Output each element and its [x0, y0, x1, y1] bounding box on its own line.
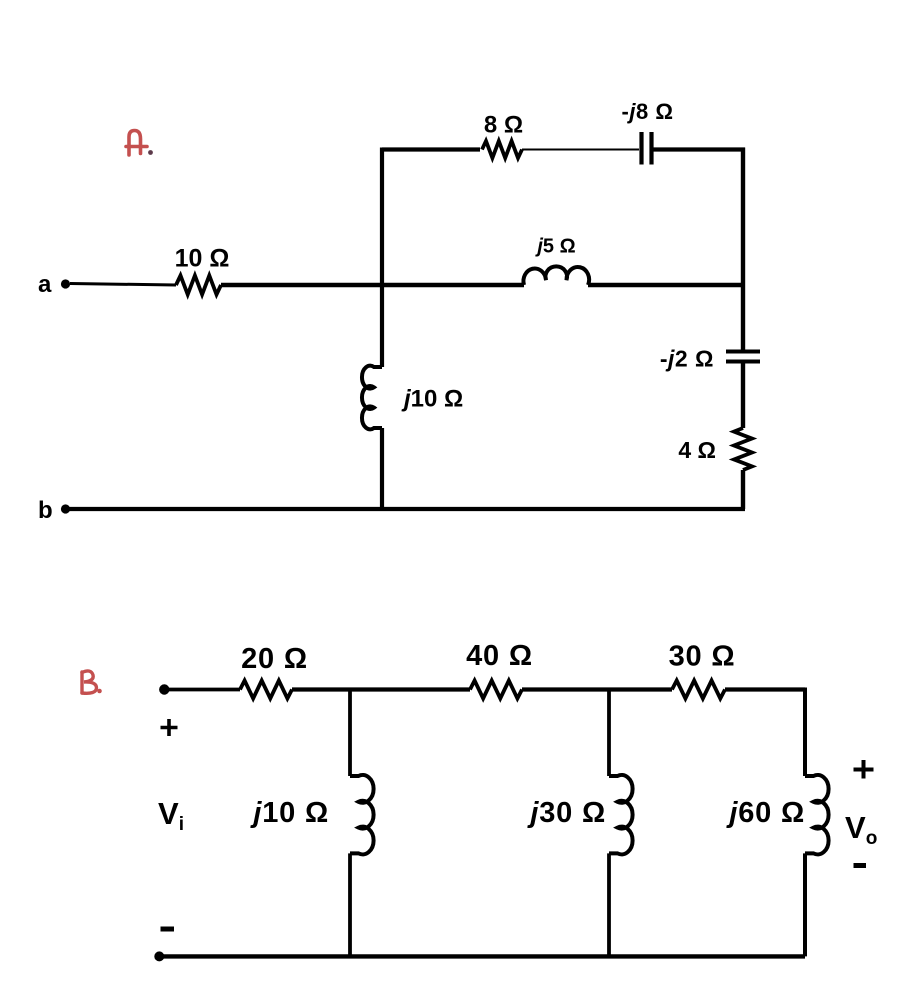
- resistor 20ohm: [240, 681, 292, 699]
- right vertical upper: [741, 148, 745, 350]
- svg-text:10 Ω: 10 Ω: [175, 245, 230, 273]
- top-left node dot: [159, 684, 169, 694]
- wire R4 to bottom rail: [741, 470, 745, 509]
- resistor 4ohm vertical: [734, 428, 752, 470]
- svg-text:4 Ω: 4 Ω: [678, 437, 716, 463]
- svg-text:j10 Ω: j10 Ω: [401, 386, 463, 413]
- wire cap to R4: [741, 364, 745, 429]
- inductor j10 (circuit A, left-facing): [362, 366, 382, 430]
- rail 40ohm to 30ohm: [522, 687, 672, 691]
- capacitor -j2: [726, 352, 760, 362]
- minus sign left: [161, 927, 175, 932]
- inductor j60: [805, 775, 829, 854]
- branch j10 (B) upper wire: [348, 688, 352, 777]
- rail 20ohm to 40ohm: [292, 687, 470, 691]
- svg-text:b: b: [38, 497, 53, 524]
- svg-text:20 Ω: 20 Ω: [241, 643, 308, 675]
- branch j10 lower wire: [348, 853, 352, 956]
- top rail left segment: [382, 147, 480, 151]
- svg-text:j60 Ω: j60 Ω: [725, 797, 805, 829]
- resistor 10ohm: [176, 276, 221, 295]
- branch j30 lower wire: [607, 853, 611, 956]
- bottom rail B: [159, 954, 805, 958]
- svg-text:30 Ω: 30 Ω: [669, 641, 736, 673]
- label A. (red handwritten): [126, 131, 147, 156]
- wire a to R 10ohm: [70, 284, 176, 286]
- right branch lower wire: [803, 853, 807, 956]
- vertical wire below coil to bottom rail: [380, 428, 384, 509]
- wire R10 to junction, middle rail left part: [221, 283, 524, 287]
- bottom rail A: [66, 507, 745, 511]
- inductor j10 (B, right-facing): [350, 775, 374, 854]
- svg-text:-j8 Ω: -j8 Ω: [622, 99, 674, 124]
- branch j30 upper wire: [607, 688, 611, 777]
- top rail right segment: [654, 147, 746, 151]
- right branch upper wire: [803, 688, 807, 777]
- svg-text:a: a: [38, 271, 52, 298]
- resistor 30ohm: [672, 681, 725, 699]
- top rail B: dot to 20ohm: [164, 688, 240, 692]
- minus sign right: [854, 863, 867, 868]
- resistor 8ohm: [482, 141, 522, 158]
- vertical wire at junction x382 (top rail to coil): [380, 148, 384, 368]
- svg-text:j30 Ω: j30 Ω: [526, 797, 606, 829]
- svg-text:j5 Ω: j5 Ω: [534, 236, 575, 258]
- thin wire 8ohm to cap: [522, 149, 639, 151]
- plus sign right: [854, 760, 874, 779]
- bottom-left node dot: [154, 951, 164, 961]
- label B. (red handwritten): [82, 671, 97, 693]
- rail 30ohm to right corner: [725, 687, 805, 691]
- plus sign left: [161, 719, 178, 736]
- svg-text:40 Ω: 40 Ω: [466, 640, 533, 672]
- inductor j5: [523, 266, 589, 285]
- inductor j30: [609, 775, 633, 854]
- middle rail right part: [588, 283, 743, 287]
- resistor 40ohm: [470, 681, 522, 699]
- svg-text:-j2 Ω: -j2 Ω: [660, 346, 714, 372]
- svg-text:8 Ω: 8 Ω: [484, 112, 523, 139]
- svg-text:j10 Ω: j10 Ω: [249, 797, 329, 829]
- capacitor -j8: [642, 132, 652, 165]
